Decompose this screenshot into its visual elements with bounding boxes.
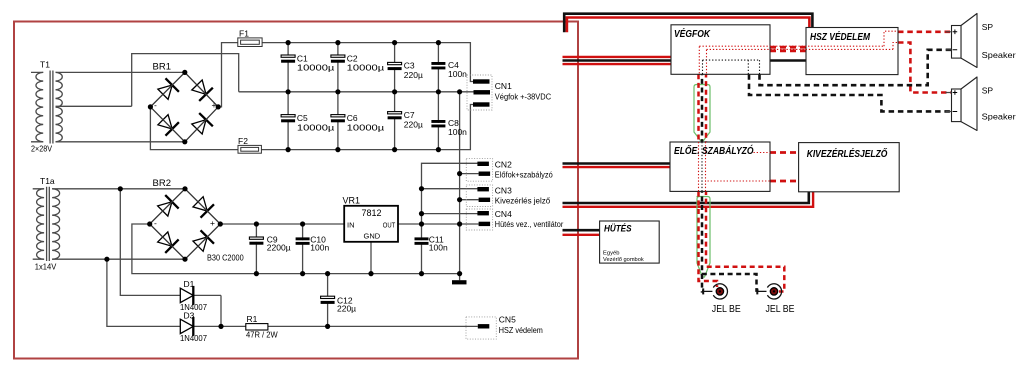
- svg-text:CN3: CN3: [495, 185, 512, 195]
- svg-text:HÜTÉS: HÜTÉS: [604, 224, 632, 234]
- svg-text:Speaker: Speaker: [982, 50, 1016, 60]
- svg-text:VÉGFOK: VÉGFOK: [674, 27, 711, 40]
- svg-text:CN2: CN2: [495, 159, 512, 169]
- svg-text:100n: 100n: [429, 242, 448, 252]
- svg-text:F1: F1: [239, 29, 249, 39]
- svg-text:100n: 100n: [448, 127, 467, 137]
- svg-text:+: +: [210, 218, 215, 228]
- svg-text:HSZ VÉDELEM: HSZ VÉDELEM: [810, 30, 870, 43]
- svg-text:Kivezérlés jelző: Kivezérlés jelző: [495, 195, 551, 205]
- svg-text:D1: D1: [184, 279, 195, 289]
- svg-text:Egyéb: Egyéb: [603, 251, 619, 257]
- svg-text:T1: T1: [40, 60, 50, 70]
- svg-text:10000µ: 10000µ: [297, 122, 335, 132]
- svg-text:CN5: CN5: [499, 315, 516, 325]
- svg-text:R1: R1: [247, 314, 258, 324]
- svg-text:220µ: 220µ: [337, 303, 356, 313]
- svg-text:JEL BE: JEL BE: [766, 303, 795, 315]
- svg-text:10000µ: 10000µ: [347, 122, 385, 132]
- svg-text:+: +: [212, 100, 217, 110]
- svg-text:GND: GND: [364, 231, 381, 240]
- svg-text:D3: D3: [184, 310, 195, 320]
- svg-text:VR1: VR1: [343, 195, 361, 205]
- svg-text:220µ: 220µ: [404, 119, 423, 129]
- svg-text:Előfok+szabályzó: Előfok+szabályzó: [495, 169, 553, 179]
- svg-text:JEL BE: JEL BE: [712, 303, 741, 315]
- svg-text:SP: SP: [982, 85, 994, 95]
- svg-text:Speaker: Speaker: [982, 112, 1016, 122]
- svg-text:Hütés vez., ventilátor: Hütés vez., ventilátor: [495, 219, 564, 229]
- svg-text:7812: 7812: [362, 208, 382, 218]
- svg-text:BR2: BR2: [153, 178, 171, 189]
- svg-text:220µ: 220µ: [404, 70, 423, 80]
- svg-text:BR1: BR1: [153, 62, 171, 73]
- svg-text:SP: SP: [982, 22, 994, 32]
- svg-text:B30 C2000: B30 C2000: [207, 253, 244, 263]
- svg-text:-: -: [154, 218, 157, 228]
- svg-text:100n: 100n: [310, 242, 329, 252]
- svg-text:1x14V: 1x14V: [35, 262, 57, 272]
- svg-text:1N4007: 1N4007: [180, 333, 207, 343]
- svg-text:OUT: OUT: [383, 220, 396, 229]
- svg-text:CN1: CN1: [495, 81, 512, 91]
- svg-text:2200µ: 2200µ: [267, 242, 291, 252]
- svg-text:Végfok +-38VDC: Végfok +-38VDC: [495, 91, 551, 101]
- svg-text:HSZ védelem: HSZ védelem: [499, 325, 543, 335]
- svg-text:KIVEZÉRLÉSJELZŐ: KIVEZÉRLÉSJELZŐ: [807, 147, 888, 160]
- svg-text:2×28V: 2×28V: [31, 143, 52, 153]
- svg-text:-: -: [154, 100, 157, 110]
- svg-text:Vezérlő gombok: Vezérlő gombok: [603, 257, 644, 263]
- svg-text:10000µ: 10000µ: [297, 63, 335, 73]
- svg-text:F2: F2: [238, 136, 248, 146]
- svg-text:10000µ: 10000µ: [347, 63, 385, 73]
- svg-text:IN: IN: [347, 220, 355, 229]
- svg-text:47R / 2W: 47R / 2W: [246, 330, 278, 340]
- svg-text:CN4: CN4: [495, 209, 512, 219]
- svg-text:100n: 100n: [448, 69, 467, 79]
- svg-text:T1a: T1a: [40, 176, 55, 186]
- svg-text:ELŐE. SZABÁLYZÓ: ELŐE. SZABÁLYZÓ: [674, 144, 754, 157]
